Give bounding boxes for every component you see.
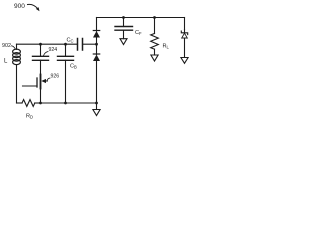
wire inductor top to node wire [16,44,18,49]
node dot rail-ground [95,102,98,105]
label RD [26,114,33,120]
leader arrow for 900 [28,4,40,11]
diode D2 [93,54,100,103]
label 902 [2,43,11,49]
transistor 926 drain wire [40,60,42,103]
capacitor CF [115,18,133,39]
node label 900 [14,3,25,10]
svg-text:L: L [4,59,8,65]
transistor 926 gate bar [36,78,38,87]
capacitor 924 [33,44,49,60]
resistor RL [151,18,159,56]
label CB [70,64,77,70]
ground (under zener) [181,58,188,64]
wire Cc right to diode junction [83,43,97,45]
zener branch wire [184,18,186,30]
wire bottom rail [41,102,97,104]
node dot CB-rail [64,102,67,105]
inductor L coil [13,49,21,65]
svg-text:RL: RL [163,44,170,50]
label 926 [51,74,60,80]
ground (bottom) [93,103,100,116]
capacitor CB [58,44,74,103]
svg-text:902: 902 [2,43,11,49]
diode D1 [93,31,100,55]
diode chain wire top [96,18,98,32]
svg-text:RD: RD [26,114,33,120]
resistor RD [17,100,41,107]
node dot source-rail [39,102,42,105]
capacitor Cc [78,39,83,51]
transistor 926 channel bar [40,75,42,89]
label CF [135,30,142,36]
node dot diode junction [95,43,98,46]
zener diode [181,30,187,58]
svg-text:900: 900 [14,3,25,10]
leader for 926 [47,78,50,81]
node dot CB top [64,43,67,46]
wire main node horizontal (left of Cc) [17,43,78,45]
wire inductor bottom to bottom-left corner [16,65,18,103]
svg-text:CF: CF [135,30,142,36]
transistor 926 body arrow [41,79,47,83]
svg-text:CB: CB [70,64,77,70]
transistor 926 gate lead [23,85,38,87]
leader for 902 [12,46,16,49]
ground (under CF) [120,39,127,45]
node dot cap924 [39,43,42,46]
svg-text:CC: CC [67,38,74,44]
label 924 [49,47,58,53]
ground (under RL) [151,55,158,61]
leader for 924 [44,52,49,56]
label RL [163,44,170,50]
inductor L label [4,59,8,65]
svg-text:926: 926 [51,74,60,80]
node dot CF-rail [122,16,125,19]
label Cc [67,38,74,44]
node dot RL-rail [153,16,156,19]
svg-text:924: 924 [49,47,58,53]
wire top rail [97,17,185,19]
